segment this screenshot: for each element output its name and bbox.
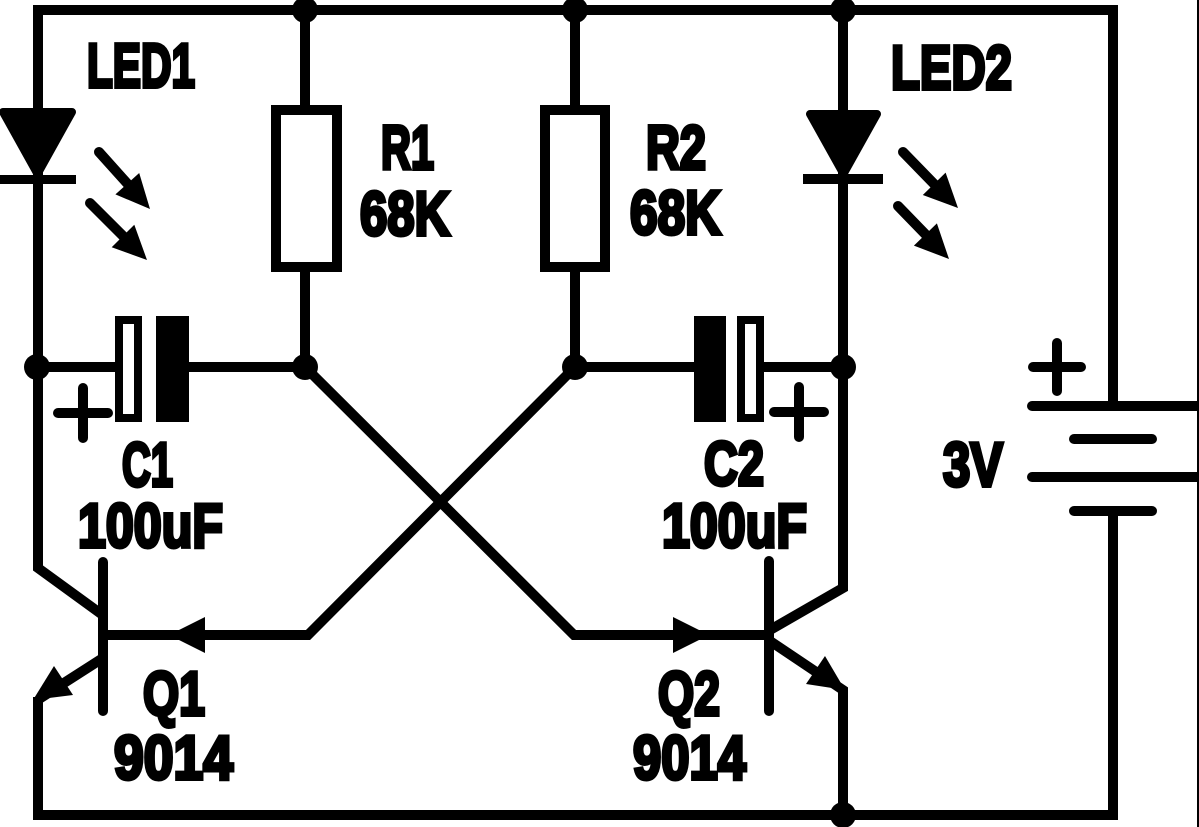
svg-text:LED2: LED2 — [891, 34, 1012, 103]
svg-text:9014: 9014 — [633, 724, 746, 793]
transistor Q2 base bar — [764, 561, 774, 711]
junction dot LED2 top — [830, 0, 856, 23]
wire C2 right — [760, 362, 843, 372]
svg-text:3V: 3V — [943, 431, 1003, 500]
wire C1 right — [189, 362, 305, 372]
junction dot Q2 emitter bottom — [830, 802, 856, 827]
wire top rail — [33, 5, 1118, 15]
wire R1 top — [300, 10, 310, 110]
wire right rail top — [1108, 5, 1118, 406]
junction dot C2 right node — [830, 354, 856, 380]
svg-text:68K: 68K — [630, 179, 721, 248]
resistor R2 — [545, 110, 605, 267]
junction dot node A — [292, 354, 318, 380]
wire right rail bottom — [1108, 511, 1118, 820]
battery polarity plus — [1033, 343, 1081, 391]
wire LED2 branch — [838, 10, 848, 367]
wire bottom rail — [33, 810, 1118, 820]
C1 polarity plus — [58, 388, 108, 438]
arrowhead Q2 emitter — [806, 656, 845, 690]
wire R2 bottom — [570, 267, 580, 368]
wire R2 top — [570, 10, 580, 110]
LED1 diode — [0, 112, 76, 184]
svg-text:R2: R2 — [646, 114, 706, 183]
LED2 diode — [803, 114, 883, 184]
svg-text:R1: R1 — [381, 114, 434, 183]
svg-text:68K: 68K — [360, 180, 450, 249]
junction dot R1 top — [292, 0, 318, 23]
LED1 light arrows — [90, 152, 150, 260]
capacitor C1 — [119, 316, 189, 422]
LED2 light arrows — [898, 152, 958, 259]
svg-text:LED1: LED1 — [87, 32, 195, 101]
wire left rail lower — [33, 697, 43, 820]
right page border — [1197, 0, 1199, 827]
wire cross-couple node A to Q2 base — [305, 367, 766, 635]
transistor Q2 emitter — [770, 641, 843, 820]
svg-text:100uF: 100uF — [78, 492, 223, 561]
capacitor C2 — [694, 316, 760, 422]
junction dot C1 left node — [24, 354, 50, 380]
transistor Q1 base bar — [98, 562, 108, 711]
wire left rail upper and Q1 collector — [38, 5, 104, 616]
svg-text:100uF: 100uF — [662, 492, 807, 561]
battery B1 plates — [1032, 406, 1199, 511]
svg-text:C2: C2 — [704, 430, 764, 499]
arrow into Q1 base — [169, 617, 205, 653]
arrowhead Q1 emitter — [33, 666, 73, 700]
C2 polarity plus — [774, 387, 824, 437]
svg-text:9014: 9014 — [114, 724, 233, 793]
wire R1 bottom — [300, 267, 310, 368]
wire C2 left — [575, 362, 710, 372]
svg-text:C1: C1 — [122, 431, 173, 500]
wire C1 left — [38, 362, 119, 372]
svg-text:Q1: Q1 — [143, 660, 205, 729]
junction dot node B — [562, 354, 588, 380]
svg-text:Q2: Q2 — [658, 660, 720, 729]
arrow into Q2 base — [673, 617, 709, 653]
junction dot R2 top — [562, 0, 588, 23]
transistor Q2 collector — [770, 367, 843, 630]
wire cross-couple node B to Q1 base — [103, 367, 575, 635]
transistor Q1 emitter — [39, 658, 103, 699]
resistor R1 — [276, 110, 337, 267]
